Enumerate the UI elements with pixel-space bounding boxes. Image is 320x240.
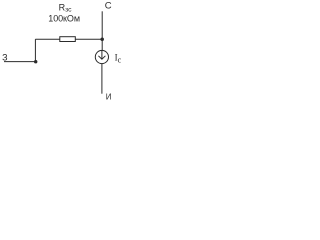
wire junction to current source (101, 39, 103, 50)
wire resistor to junction (75, 38, 102, 40)
wire source vertical (101, 64, 103, 94)
svg-text:И: И (106, 92, 112, 101)
svg-text:С: С (105, 1, 112, 12)
current source Iс (95, 50, 108, 63)
wire drain vertical (101, 11, 103, 39)
svg-text:З: З (2, 53, 7, 63)
wire gate vertical riser (34, 39, 36, 61)
wire to resistor left (35, 38, 59, 40)
svg-text:100кОм: 100кОм (48, 14, 80, 24)
wire gate horizontal (4, 61, 35, 63)
junction dot at drain node (100, 37, 104, 41)
junction corner dot (34, 60, 37, 63)
resistor Rзс (60, 37, 76, 42)
